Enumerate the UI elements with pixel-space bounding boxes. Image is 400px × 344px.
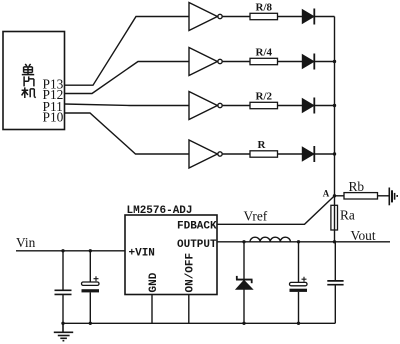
diode D1: [303, 9, 315, 25]
svg-text:R/2: R/2: [256, 90, 273, 102]
svg-text:Vout: Vout: [351, 228, 376, 243]
junction dot output L1 left: [242, 240, 245, 243]
wire U4 to R: [223, 153, 250, 155]
svg-text:OUTPUT: OUTPUT: [177, 239, 217, 251]
diode D5 (Schottky catch diode): [236, 242, 253, 323]
inverter U3: [189, 92, 222, 120]
capacitor C4 (polarized output): [290, 242, 308, 323]
wire R/4 to diode D2: [278, 61, 304, 63]
microcontroller U0 box: [3, 32, 65, 130]
label 片: [24, 76, 34, 86]
junction dot output Ra: [333, 240, 336, 243]
svg-text:FDBACK: FDBACK: [177, 221, 217, 233]
resistor R/8: [250, 13, 278, 19]
wire R/2 to diode D3: [278, 105, 304, 107]
wire U2 to R/4: [223, 61, 250, 63]
bottom rail wire: [63, 322, 335, 324]
wire node A to Rb: [335, 195, 345, 197]
wire P12 to inverter U2: [65, 62, 190, 94]
capacitor C5 (output): [327, 242, 343, 323]
svg-text:GND: GND: [148, 272, 160, 292]
svg-text:Ra: Ra: [340, 208, 355, 223]
wire D4 to bus: [315, 153, 335, 155]
chip U5 LM2576-ADJ box: [125, 215, 217, 295]
chip ON/OFF pin wire: [188, 295, 190, 324]
ground G2 (right, rotated earth): [389, 188, 397, 206]
node A dot: [333, 194, 336, 197]
label 单: [22, 64, 34, 75]
junction dot input C2: [89, 249, 92, 252]
wire P13 to inverter U1: [65, 17, 190, 86]
svg-text:A: A: [323, 188, 330, 198]
svg-text:Vin: Vin: [16, 235, 36, 250]
label 机: [22, 87, 36, 98]
inverter U1: [189, 3, 222, 31]
wire R/8 to diode D1: [278, 16, 304, 18]
capacitor C1: [55, 251, 72, 323]
junction dot bottom D5: [242, 322, 245, 325]
inverter U2: [189, 48, 222, 76]
wire D2 to bus: [315, 61, 335, 63]
resistor R: [250, 151, 278, 157]
ground G1 (earth): [54, 323, 73, 340]
junction dot bus row4: [333, 152, 336, 155]
inverter U4: [189, 140, 222, 168]
FDBACK wire to node A: [217, 196, 335, 225]
resistor Rb: [344, 193, 378, 199]
diode D3: [303, 98, 315, 114]
wire R to diode D4: [278, 153, 304, 155]
inductor L1: [250, 237, 290, 242]
svg-text:R: R: [258, 139, 267, 151]
svg-text:R/4: R/4: [256, 46, 273, 58]
junction dot bottom C2: [89, 322, 92, 325]
input rail wire: [16, 250, 125, 252]
svg-text:R/8: R/8: [256, 1, 273, 13]
junction dot input C1: [61, 249, 64, 252]
junction dot bus row2: [333, 60, 336, 63]
wire U1 to R/8: [223, 16, 250, 18]
wire P11 to inverter U3: [65, 104, 190, 106]
capacitor C2 (polarized): [82, 251, 100, 323]
diode D4: [303, 146, 315, 162]
svg-text:P10: P10: [43, 109, 64, 124]
wire D3 to bus: [315, 105, 335, 107]
wire U3 to R/2: [223, 105, 250, 107]
svg-text:+VIN: +VIN: [129, 247, 155, 259]
resistor Ra: [331, 205, 338, 230]
svg-text:Vref: Vref: [244, 209, 268, 224]
junction dot bottom C1: [61, 322, 64, 325]
wire D1 to bus: [315, 16, 335, 18]
junction dot bottom C4: [297, 322, 300, 325]
diode D2: [303, 54, 315, 70]
svg-text:Rb: Rb: [349, 179, 365, 194]
resistor R/4: [250, 58, 278, 64]
svg-text:ON/OFF: ON/OFF: [184, 253, 196, 293]
chip GND pin wire: [151, 295, 153, 324]
wire Rb to ground: [378, 195, 390, 197]
wire P10 to inverter U4: [65, 113, 190, 154]
diode summing bus wire: [334, 17, 336, 242]
svg-text:LM2576-ADJ: LM2576-ADJ: [127, 205, 193, 217]
resistor R/2: [250, 102, 278, 108]
junction dot output L1 right: [297, 240, 300, 243]
output rail wire: [217, 241, 390, 243]
junction dot bus row3: [333, 104, 336, 107]
